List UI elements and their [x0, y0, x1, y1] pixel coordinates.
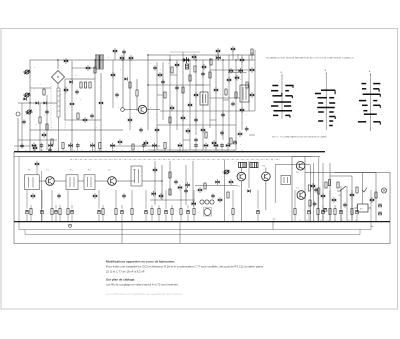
switch S3 contact r1s2 — [373, 83, 380, 85]
svg-text:a: a — [118, 107, 119, 109]
transformer TR1 winding a — [96, 55, 99, 69]
wire t3 links — [124, 109, 138, 111]
transistor Q13 — [216, 48, 220, 53]
jack body — [204, 209, 211, 216]
wire ladder v3 — [169, 55, 171, 150]
transistor T3a — [120, 55, 124, 60]
wire ladder h1 — [148, 84, 210, 86]
svg-text:u: u — [216, 134, 217, 136]
svg-text:u: u — [120, 69, 121, 71]
svg-text:Sur plan de câblage.: Sur plan de câblage. — [106, 277, 135, 281]
trimmer small — [223, 170, 231, 174]
tick marks on bus — [17, 150, 19, 152]
wire mixer bottom — [57, 84, 59, 89]
bus separator second — [14, 155, 311, 157]
transistor M12 — [311, 183, 315, 188]
transistor T5 — [46, 177, 55, 186]
switch S3 contact r6s1 — [363, 110, 367, 112]
svg-text:u: u — [150, 136, 151, 138]
electrolytic C22 — [40, 211, 43, 214]
capacitor P6 — [76, 143, 80, 148]
transistor U14 — [181, 115, 185, 120]
electrolytic C28 — [97, 211, 100, 214]
resistor R4 — [84, 82, 86, 88]
svg-text:a: a — [44, 115, 45, 117]
electrolytic C31 — [120, 211, 123, 214]
transistor U16 — [194, 92, 198, 97]
resistor R43 — [294, 209, 296, 215]
wire out rail mid — [275, 164, 310, 166]
wire ladder h3 — [157, 124, 236, 126]
resistor R40 — [193, 209, 195, 215]
transistor M3 — [178, 185, 182, 190]
bus tick marks lower — [299, 220, 301, 222]
wire cluster h72 — [228, 72, 247, 74]
power switch — [340, 186, 346, 191]
resistor R11 — [77, 113, 79, 119]
wire ladder h2 — [160, 110, 255, 112]
capacitor P14 — [194, 143, 198, 148]
frame lower mid — [25, 234, 360, 236]
switch S2 contact r1s1 — [321, 89, 335, 91]
wire ladder v10 — [215, 55, 217, 150]
transistor U27 — [250, 92, 254, 97]
transistor Q11 — [113, 48, 117, 53]
capacitor C14 — [221, 112, 225, 117]
capacitor C30 — [313, 201, 317, 206]
transistor Q26 — [370, 197, 374, 202]
capacitor C12 — [161, 79, 165, 84]
transistor Q22 — [153, 167, 157, 172]
meter check mark — [362, 188, 367, 193]
wire upper-left extras — [21, 103, 23, 146]
diamond mixer ring — [52, 71, 65, 84]
svg-text:u: u — [240, 79, 241, 81]
IF can F2 — [240, 85, 249, 102]
transistor Q14 — [155, 127, 159, 132]
electrolytic out a — [378, 204, 381, 207]
capacitor M8 — [122, 193, 126, 198]
resistor U15 — [189, 75, 191, 81]
wire v238 — [237, 54, 239, 60]
switch S3 contact r2s1 — [362, 88, 366, 90]
transistor M16 — [332, 197, 336, 202]
transistor U36 — [192, 54, 196, 59]
svg-text:a: a — [150, 63, 151, 65]
transistor Q19 — [227, 77, 231, 82]
transistor U22 — [235, 75, 239, 80]
switch wafer S1 axis — [281, 75, 283, 119]
transistor Q23 — [198, 187, 202, 192]
svg-text:u: u — [210, 147, 211, 149]
wire right rail top — [305, 172, 376, 174]
diode D3 — [69, 80, 72, 83]
glyph det a — [215, 179, 219, 184]
svg-text:x25: x25 — [273, 219, 276, 221]
transistor P3 — [48, 143, 52, 148]
resistor R34 — [151, 209, 153, 215]
resistor R5 — [89, 82, 91, 88]
transistor Q3 — [42, 132, 46, 137]
tuning coil L4 — [57, 88, 60, 117]
transistor Q4 — [83, 117, 87, 122]
electrolytic C31 — [324, 209, 327, 212]
resistor R25 — [59, 209, 61, 215]
jack circles — [200, 200, 204, 204]
wire ladder v1 — [156, 62, 158, 150]
wire tr1 top — [95, 54, 104, 56]
electrolytic C27 — [70, 211, 73, 214]
wire mixer top — [57, 60, 59, 69]
wire d-row — [30, 102, 57, 104]
wire lowerband mid extras — [154, 161, 156, 205]
wire above-rail stubs — [114, 51, 116, 60]
dash-dot alignment line — [70, 158, 280, 160]
wire ladder v15 — [248, 55, 250, 111]
wire out frame — [291, 156, 293, 221]
capacitor C2 — [48, 147, 52, 152]
electrolytic U35 — [233, 141, 236, 144]
svg-text:Les fils de couplage ne valent: Les fils de couplage ne valent lames 4 e… — [106, 283, 179, 287]
switch S2 contact r3s1 — [317, 97, 327, 99]
svg-text:u: u — [80, 99, 81, 101]
resistor R14 — [132, 144, 134, 150]
wire lower-right extras — [340, 186, 342, 222]
svg-text:u: u — [220, 94, 221, 96]
transistor M1 — [152, 191, 156, 196]
transistor U28 — [186, 128, 190, 133]
resistor R30 — [115, 209, 117, 215]
svg-text:u: u — [200, 109, 201, 111]
svg-text:u: u — [240, 144, 241, 146]
electrolytic C24 — [54, 211, 57, 214]
transistor T2 — [70, 101, 74, 106]
wire center extras — [112, 60, 114, 108]
capacitor C11 — [122, 49, 126, 54]
capacitor P10 — [142, 143, 146, 148]
wire det h — [195, 184, 237, 186]
transistor Q20 — [240, 107, 244, 112]
wire ladder jogs — [157, 94, 163, 96]
wire stage drops — [26, 190, 28, 205]
svg-text:Les modifications sont applica: Les modifications sont applicables aux a… — [106, 292, 183, 296]
transistor Q18 — [214, 87, 218, 92]
wire ladder v16 — [254, 50, 256, 111]
transistor Q27 top-left lower — [35, 161, 39, 166]
electrolytic C49 — [339, 211, 342, 214]
electrolytic C46 — [321, 211, 324, 214]
transistor Q6 — [86, 65, 90, 70]
capacitor C9 — [115, 92, 119, 97]
resistor R30 — [308, 185, 310, 191]
switch S3 contact r1s1 — [361, 83, 366, 85]
electrolytic C39 — [186, 211, 189, 214]
resistor R18 — [209, 72, 211, 78]
resistor R6 — [136, 90, 138, 96]
wire ladder h4 — [148, 149, 236, 151]
capacitor P2 — [40, 143, 44, 148]
transistor Q7 — [111, 72, 115, 77]
resistor R26 — [67, 209, 69, 215]
svg-text:u: u — [160, 69, 161, 71]
wire mid column — [94, 60, 96, 152]
switch S3 contact r8s2 — [373, 121, 380, 123]
ground symbol — [68, 224, 71, 227]
transistor Q10 — [144, 140, 148, 145]
switch S2 contact r8s2 — [329, 120, 333, 122]
transistor M14 — [321, 193, 325, 198]
switch S1 contact r3s2 — [285, 95, 292, 97]
transistor P15 — [204, 143, 208, 148]
capacitor M4 — [184, 188, 188, 193]
electrolytic C36 — [164, 211, 167, 214]
capacitor C8 — [90, 113, 94, 118]
resistor R24 — [375, 192, 377, 198]
resistor R9 — [43, 89, 45, 95]
resistor R22 — [227, 192, 229, 198]
svg-text:a: a — [108, 57, 109, 59]
IF can F7 dark — [250, 162, 258, 167]
wire ladder v2 — [162, 62, 164, 120]
svg-text:DE T1 , T2 COMMUTATEUR VUE: DE T1 , T2 COMMUTATEUR VUE DE DESSUS DE … — [272, 136, 328, 139]
electrolytic C51 — [355, 211, 358, 214]
resistor R48 — [334, 209, 336, 215]
wire ladder v5 — [182, 52, 184, 152]
capacitor M13 — [314, 187, 318, 192]
oscillator coil dark — [186, 64, 189, 69]
wire left main vertical — [29, 60, 31, 152]
transistor T3 mixer — [138, 105, 146, 113]
transistor U20 — [229, 68, 233, 73]
battery B1 — [358, 204, 369, 212]
oscillator transistor T4 dark — [183, 57, 191, 63]
switch S2 contact r5s1 — [317, 107, 335, 109]
wire upper-mid extras — [72, 67, 95, 69]
transistor Q9 — [118, 139, 122, 144]
IF can F3 — [25, 175, 40, 190]
wire x148 column — [147, 55, 149, 130]
capacitor C1 — [20, 143, 24, 148]
resistor R29 — [102, 209, 104, 215]
switch S2 contact r4s2 — [329, 102, 335, 104]
transistor M11 — [31, 193, 35, 198]
wire ladder v7 — [195, 55, 197, 135]
svg-text:Modifications apportées en cou: Modifications apportées en cours de fabr… — [106, 259, 175, 263]
wire t2 column — [71, 61, 73, 101]
resistor R2 — [46, 124, 48, 130]
wire x123 column — [122, 60, 124, 108]
svg-text:u: u — [126, 134, 127, 136]
resistor M15 — [325, 182, 327, 188]
wire ladder v8 — [202, 60, 204, 150]
resistor M7 — [169, 189, 171, 195]
terminal small — [121, 108, 125, 112]
transistor U34 — [238, 131, 242, 136]
capacitor C5 — [153, 65, 157, 70]
speaker HP — [381, 188, 386, 193]
diode D1 — [35, 101, 38, 104]
transistor T7 det — [237, 172, 246, 181]
wire bottom drop b — [179, 222, 181, 244]
transistor U18 — [202, 64, 206, 69]
capacitor C17 — [211, 193, 215, 198]
capacitor M10 — [57, 193, 61, 198]
resistor R17 — [182, 87, 184, 93]
electrolytic C20 — [25, 211, 28, 214]
IF can F5 — [131, 166, 142, 186]
terminal socket — [16, 112, 20, 116]
switch S1 contact r5s2 — [284, 105, 291, 107]
svg-text:u: u — [246, 114, 247, 116]
resistor R21 — [30, 209, 32, 215]
svg-text:a: a — [34, 89, 35, 91]
resistor R41 — [232, 209, 234, 215]
wire bottom drop c — [272, 222, 274, 230]
diode D2 — [43, 101, 46, 104]
transistor P9 — [110, 143, 114, 148]
phase splitter box — [281, 176, 291, 185]
dashed gang link left — [50, 86, 52, 130]
capacitor C10 — [139, 127, 143, 132]
transistor M5 — [185, 182, 189, 187]
wire ladder v13 — [235, 60, 237, 150]
switch S3 contact r7s1 — [364, 113, 377, 115]
wire ladder v11 — [222, 60, 224, 140]
resistor R23 — [356, 187, 358, 193]
resistor U11 — [164, 92, 166, 98]
transistor T3b — [129, 55, 133, 60]
transistor T1 — [64, 58, 68, 63]
transistor P11 — [152, 143, 156, 148]
svg-text:u: u — [66, 134, 67, 136]
wire bottom drop a — [121, 222, 123, 244]
svg-text:u: u — [40, 84, 41, 86]
ground bus heavy — [14, 221, 390, 223]
resistor R45 — [317, 209, 319, 215]
resistor R23 — [51, 209, 53, 215]
electrolytic C44 — [307, 211, 310, 214]
resistor R8 — [194, 66, 196, 72]
transistor Q8 — [128, 117, 132, 122]
resistor R37 — [171, 209, 173, 215]
resistor R10 — [51, 139, 53, 145]
resistor P8 — [99, 143, 101, 149]
resistor U33 — [230, 138, 232, 144]
junction dot bus — [273, 221, 275, 223]
transistor U31 — [212, 140, 216, 145]
trimmer L2 — [23, 93, 31, 97]
transistor M9 — [93, 193, 97, 198]
transistor P7 — [90, 143, 94, 148]
svg-text:Pour éviter une instabilité en: Pour éviter une instabilité en OC3 le dé… — [106, 265, 264, 269]
svg-text:u: u — [36, 124, 37, 126]
capacitor U17 — [201, 71, 205, 76]
transistor U21 — [239, 68, 243, 73]
switch S3 contact r5s1 — [362, 104, 368, 106]
capacitor C3 — [75, 89, 79, 94]
svg-text:u: u — [60, 94, 61, 96]
wire x101 — [100, 73, 102, 100]
switch S1 contact r7s2 — [285, 114, 290, 116]
frame lower outer — [14, 152, 390, 244]
wire ladder h5 — [210, 97, 240, 99]
wire mid small — [136, 79, 138, 90]
transistor P18 — [226, 143, 230, 148]
transistor Q24 — [218, 197, 222, 202]
capacitor U29 — [194, 137, 198, 142]
transistor T9 out — [296, 162, 305, 171]
switch S2 contact r4s1 — [318, 102, 323, 104]
transistor Q25 — [350, 192, 354, 197]
capacitor C13 — [194, 117, 198, 122]
switch S3 contact r8s1 — [358, 121, 366, 123]
frame lower inner — [19, 156, 371, 229]
wire det columns — [240, 168, 242, 173]
capacitor C6 — [22, 119, 26, 124]
electrolytic out b — [378, 212, 381, 215]
switch S2 contact r8s1 — [318, 120, 323, 122]
IF can F1 — [200, 92, 208, 105]
resistor U23 — [225, 89, 227, 95]
wire stage rail — [161, 165, 163, 200]
wire can drop x41 — [40, 171, 42, 222]
electrolytic C33 — [144, 211, 147, 214]
svg-text:u: u — [180, 84, 181, 86]
glyph det b — [229, 179, 233, 184]
IF can F6 dark — [239, 162, 247, 167]
switch S3 contact r2s2 — [373, 88, 379, 90]
resistor R15 — [251, 49, 253, 55]
resistor R32 — [131, 209, 133, 215]
svg-text:a: a — [205, 59, 206, 61]
diode D4 — [124, 77, 127, 80]
resistor R7 — [171, 67, 173, 73]
glyph Q1 — [33, 145, 37, 150]
capacitor C7 — [45, 109, 49, 114]
switch wafer S3 axis — [369, 74, 371, 131]
switch S1 contact r2s1 — [271, 90, 278, 92]
transistor P1 — [32, 143, 36, 148]
trimmer L3 — [25, 110, 33, 114]
switch S3 contact r3s1 — [363, 93, 381, 95]
switch S2 contact r6s2 — [329, 111, 334, 113]
bus separator heavy — [14, 151, 325, 153]
switch S3 contact r4s2 — [373, 100, 377, 102]
switch S2 contact r9s1 — [329, 125, 333, 127]
resistor R12 — [94, 67, 96, 73]
wire stage links — [39, 180, 46, 182]
dashed gang link right — [64, 86, 66, 130]
switch wafer S2 axis — [325, 73, 327, 130]
transistor U19 — [216, 55, 220, 60]
transistor T10 out — [297, 191, 306, 200]
switch S2 contact r2s1 — [315, 93, 321, 95]
switch S1 contact r5s1 — [271, 105, 278, 107]
switch S2 contact r3s2 — [329, 97, 334, 99]
resistor R13 — [129, 82, 131, 88]
resistor U37 — [210, 59, 212, 65]
wire ladder v6 — [189, 60, 191, 150]
svg-text:a: a — [150, 107, 151, 109]
wire ladder v14 — [241, 55, 243, 130]
svg-text:u: u — [186, 119, 187, 121]
diode D6 — [23, 97, 26, 100]
transistor Q17 — [201, 127, 205, 132]
electrolytic C42 — [256, 211, 259, 214]
transistor T8 det — [262, 172, 271, 181]
wire r1 drop — [39, 103, 41, 117]
switch S3 contact r5s2 — [373, 104, 380, 106]
